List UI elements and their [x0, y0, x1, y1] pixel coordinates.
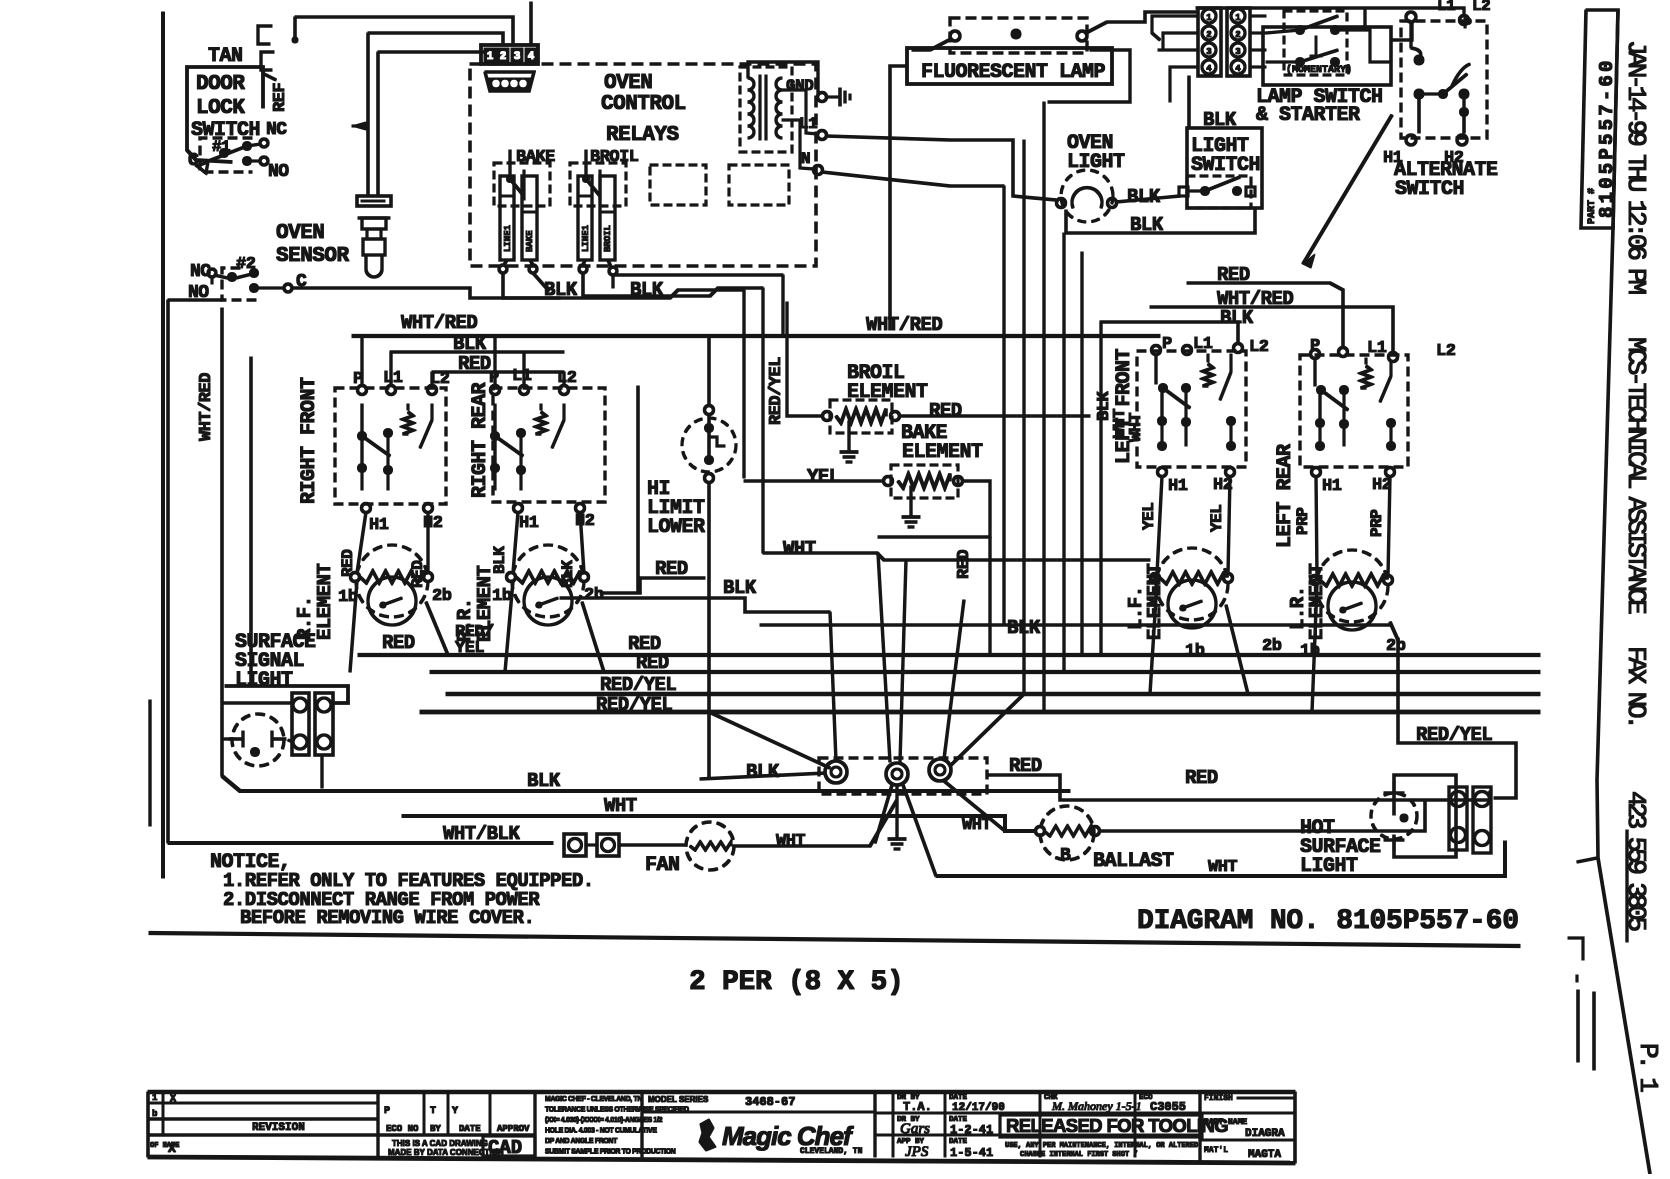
svg-text:H1: H1: [1322, 477, 1342, 496]
wire fan-in 1: [830, 612, 836, 761]
svg-text:JPS: JPS: [905, 1144, 929, 1160]
svg-text:C3055: C3055: [1150, 1100, 1186, 1114]
wire RF L2 up: [431, 372, 433, 386]
svg-text:WHT: WHT: [1208, 858, 1237, 877]
svg-text:CHANGE INTERNAL FIRST SHOT /: CHANGE INTERNAL FIRST SHOT /: [1020, 1151, 1142, 1159]
wire red/yel vertical: [762, 288, 764, 553]
label LIMIT: [647, 497, 705, 520]
svg-text:HOLE DIA. 4.003 - NOT CUMULATI: HOLE DIA. 4.003 - NOT CUMULATIVE: [545, 1128, 657, 1135]
hot surface light lamp: [1371, 782, 1417, 851]
label ELEMENT YEL (LF vertical): [1144, 564, 1166, 640]
hot surface light connector strip 1: [1449, 787, 1467, 850]
wires CN2 to lamp switch: [1250, 16, 1266, 67]
wire vertical V3: [1043, 102, 1045, 712]
LR switch internals: [1315, 358, 1396, 451]
svg-text:4: 4: [528, 51, 535, 63]
svg-text:1b: 1b: [492, 587, 512, 606]
label REF (vertical): [271, 83, 290, 112]
wire LR H1 to element: [1316, 476, 1317, 576]
wire bundle RED 1: [358, 653, 1540, 656]
surface signal terminal strip 1: [292, 693, 309, 755]
label BAKE (element): [901, 422, 948, 445]
label LIGHT (oven): [1067, 151, 1125, 174]
label YEL (LF H1 vertical): [1140, 503, 1158, 530]
label NO: [268, 162, 289, 182]
wire RF L1 up: [390, 352, 392, 386]
light switch outline box: [1187, 128, 1262, 208]
label FLUORESCENT LAMP: [921, 61, 1106, 84]
relay K1 coil left: [500, 176, 514, 260]
svg-text:SWITCH: SWITCH: [1395, 178, 1464, 201]
svg-text:C: C: [188, 151, 199, 171]
svg-text:2b: 2b: [1262, 637, 1282, 656]
fluorescent lamp outline box: [907, 48, 1112, 84]
label L.F. (vertical): [1125, 586, 1147, 630]
label WHT (vertical 2): [1127, 413, 1146, 442]
svg-text:Gars: Gars: [900, 1121, 930, 1137]
label P (LF): [1162, 335, 1172, 354]
fax edge hook: [1577, 858, 1597, 862]
light switch contacts: [1179, 177, 1255, 196]
svg-text:2b: 2b: [584, 586, 604, 605]
label ALTERNATE: [1394, 159, 1498, 182]
svg-text:BAKE: BAKE: [525, 230, 535, 252]
svg-text:12/17/90: 12/17/90: [952, 1102, 1005, 1114]
label LOWER: [647, 516, 705, 539]
label BLK (junction in): [746, 761, 780, 783]
RR element: [507, 545, 589, 625]
wire bake right: [878, 481, 990, 655]
connector J1 pin 2: [497, 48, 509, 63]
wire ballast out: [1100, 800, 1425, 831]
RR switch dashed box: [493, 388, 605, 502]
LR H terminals: [1312, 468, 1395, 477]
wire RF element down: [350, 581, 448, 672]
ground symbol (junction): [888, 827, 906, 849]
label BLK (top right): [1220, 307, 1254, 329]
label RELAYS: [606, 124, 679, 147]
label 2 PER (8 X 5): [689, 967, 904, 998]
wire broil relay pins down: [583, 260, 611, 267]
label NC (switch #2): [190, 262, 211, 282]
fax header FAX NO.: [1621, 646, 1651, 726]
GND terminal: [818, 93, 827, 102]
label LAMP SWITCH: [1256, 86, 1383, 109]
label RED/YEL (bundle 4): [596, 694, 672, 716]
svg-text:RED: RED: [955, 550, 974, 579]
svg-text:LINE1: LINE1: [581, 224, 591, 252]
label BLK (jog): [723, 577, 757, 599]
oven sensor body: [358, 218, 390, 277]
fax header P. 1: [1633, 1043, 1663, 1092]
wire WHT bottom very long: [936, 841, 1505, 876]
label RIGHT REAR (vertical): [469, 382, 492, 498]
bake element dashed box: [891, 465, 958, 498]
svg-text:4: 4: [1235, 64, 1241, 74]
svg-text:2: 2: [1235, 30, 1240, 40]
label 2b (LR): [1386, 637, 1406, 656]
wire fan-out 1: [875, 785, 892, 843]
label L1 (RF): [383, 369, 403, 388]
wire relay output pin4: [613, 275, 783, 335]
wire fan-in 6: [709, 712, 830, 768]
svg-text:DIAGRAM NO. 8105P557-60: DIAGRAM NO. 8105P557-60: [1137, 906, 1519, 937]
relay K3 dashed box (unused): [650, 165, 706, 205]
connector J1 mating half: [485, 72, 534, 91]
N terminal: [814, 166, 823, 175]
wire RR L2 up: [563, 372, 565, 386]
label BLK (lamp feed): [1203, 109, 1237, 131]
wire vertical V4: [1063, 233, 1065, 672]
label H1 (LF): [1168, 477, 1188, 496]
label ELEMENT (bake): [902, 441, 983, 464]
relay K2 contact: [583, 150, 601, 200]
label RED (broil out): [929, 400, 962, 422]
fluorescent lamp levers: [912, 22, 1107, 50]
svg-text:WHT/RED: WHT/RED: [866, 314, 942, 336]
svg-text:LOWER: LOWER: [647, 516, 705, 539]
ground symbol (broil): [840, 421, 858, 462]
RR H terminals: [514, 504, 585, 513]
label WHT (mid): [783, 538, 816, 560]
svg-text:FLUORESCENT LAMP: FLUORESCENT LAMP: [921, 61, 1106, 84]
alt switch legs: [1419, 94, 1464, 133]
left page border line: [162, 12, 165, 878]
svg-text:Y: Y: [452, 1106, 458, 1117]
wire connector pin4 to page top: [530, 2, 533, 46]
wire bundle RED 2: [430, 670, 1540, 673]
svg-text:SUBMIT SAMPLE PRIOR TO PRODUCT: SUBMIT SAMPLE PRIOR TO PRODUCTION: [545, 1149, 676, 1156]
wire fluorescent right to connector: [1107, 12, 1196, 22]
svg-text:1: 1: [1235, 13, 1241, 23]
surface signal light box top: [225, 686, 348, 703]
svg-text:WHT: WHT: [783, 538, 816, 560]
hi limit terminals: [705, 406, 714, 483]
svg-text:RED: RED: [1185, 767, 1218, 789]
wire transformer to L1: [782, 90, 818, 134]
wire fan-in 5: [950, 694, 1024, 766]
fluorescent lamp terminals: [950, 29, 1087, 41]
connector strip CN2: [1227, 8, 1250, 76]
wire CN1 to light switch: [1188, 76, 1191, 128]
relay K1 coil right: [522, 176, 537, 260]
wire fluorescent lower right: [1048, 50, 1130, 102]
label YEL (under RR element): [455, 639, 484, 658]
label BLK (light switch lower): [1130, 214, 1164, 236]
svg-text:LEFT FRONT: LEFT FRONT: [1113, 348, 1136, 464]
label HOT: [1300, 817, 1335, 840]
svg-text:4: 4: [1206, 64, 1212, 74]
svg-text:H1: H1: [369, 516, 389, 535]
label WHT (fan out): [776, 832, 805, 851]
label WHT (bottom right): [1208, 858, 1237, 877]
wire left vertical A: [167, 300, 170, 843]
ground symbol (oven control): [827, 88, 850, 106]
label PRP (LR H1 vertical): [1294, 508, 1312, 535]
svg-text:2 PER (8 X 5): 2 PER (8 X 5): [689, 967, 904, 998]
wire relay outputs run A: [503, 273, 744, 298]
oven light dashed circle: [1061, 170, 1113, 222]
wire to strip1 top: [222, 702, 292, 704]
wire door lock to top run: [294, 17, 297, 38]
wire plug to strip1: [288, 740, 293, 742]
label RED (bundle 1): [628, 633, 661, 655]
oven control dashed box: [470, 64, 816, 266]
svg-text:DATE: DATE: [949, 1094, 968, 1102]
svg-text:ELEMENT: ELEMENT: [314, 564, 336, 640]
wire fan-in 3: [900, 560, 906, 762]
label 2b (LF): [1262, 637, 1282, 656]
wire transformer to N: [782, 120, 814, 169]
wire LR element down: [1312, 584, 1317, 712]
svg-text:1-5-41: 1-5-41: [950, 1146, 993, 1160]
svg-text:(MOMENTARY): (MOMENTARY): [1286, 64, 1352, 76]
wire light switch loop: [1066, 208, 1255, 233]
lamp switch contacts upper: [1266, 16, 1340, 35]
connector strip CN1: [1198, 8, 1221, 76]
svg-text:RIGHT FRONT: RIGHT FRONT: [298, 377, 321, 504]
svg-text:WHT/RED: WHT/RED: [197, 373, 216, 441]
wire bundle BLK: [760, 624, 1390, 627]
label 8105P557-60 (rotated): [1596, 57, 1618, 218]
label 2b (RR): [584, 586, 604, 605]
connector J1 pin 4: [525, 48, 537, 63]
fax header 423 559 3805: [1621, 791, 1651, 930]
switch #2 contacts: [208, 269, 292, 293]
wire bake left (YEL): [744, 480, 883, 482]
svg-text:PRP: PRP: [1294, 508, 1312, 535]
wire RR H2 to element: [580, 512, 584, 573]
wire fan-out 3: [944, 781, 1005, 831]
label 1b (LF): [1185, 642, 1205, 661]
svg-text:BROIL: BROIL: [590, 148, 639, 167]
relay K1 contact: [507, 150, 525, 200]
svg-text:DIAGRA: DIAGRA: [1245, 1128, 1285, 1140]
svg-text:DP AND ANGLE FRONT: DP AND ANGLE FRONT: [545, 1138, 618, 1145]
svg-text:APPROV: APPROV: [497, 1124, 530, 1134]
label DIAGRAM NO. 8105P557-60: [1137, 906, 1519, 937]
label BLK (bundle right): [1007, 617, 1041, 639]
svg-text:SENSOR: SENSOR: [276, 245, 350, 268]
wire RF H2 to element: [427, 512, 429, 573]
label LOCK: [196, 97, 245, 120]
label BROIL (element): [847, 362, 905, 385]
label LIGHT (hot light): [1300, 855, 1358, 878]
svg-text:LINE1: LINE1: [503, 224, 513, 252]
label GND: [786, 77, 813, 95]
svg-text:2: 2: [1206, 30, 1211, 40]
label L2 (LF): [1249, 338, 1269, 357]
surface signal light plug: [229, 714, 286, 766]
label #1: [212, 138, 230, 156]
wire BLK upper: [390, 351, 564, 354]
svg-text:DATE: DATE: [949, 1138, 968, 1146]
svg-text:H2: H2: [423, 514, 443, 533]
wire buttons to fan: [586, 844, 687, 846]
svg-text:2: 2: [500, 51, 507, 63]
label CONTROL: [601, 93, 686, 116]
svg-text:H1: H1: [1168, 477, 1188, 496]
RR switch internals: [491, 404, 565, 490]
arrow from alternate switch: [1303, 115, 1392, 268]
svg-text:FAX NO.: FAX NO.: [1621, 646, 1651, 726]
label BROIL: [590, 148, 639, 167]
svg-text:MCS-TECHNICAL ASSISTANCE: MCS-TECHNICAL ASSISTANCE: [1621, 337, 1651, 614]
label SWITCH: [191, 119, 260, 142]
wire fan-out 2: [903, 785, 936, 876]
junction block dashed box: [819, 758, 987, 794]
svg-text:1: 1: [152, 1093, 158, 1103]
svg-text:P: P: [384, 1106, 390, 1117]
LF switch terminals: [1152, 344, 1243, 355]
label BLK (relay out 1): [544, 279, 578, 301]
light switch contact dashed box: [1187, 176, 1251, 208]
connector J1 shell: [481, 45, 538, 64]
door lock switch box: [187, 67, 263, 162]
label WHT/RED (top right): [1217, 288, 1293, 310]
label PART # (rotated): [1587, 188, 1598, 224]
alt switch pole 1: [1411, 22, 1424, 65]
label HI: [647, 478, 670, 501]
label #2: [236, 255, 256, 274]
svg-text:BLK: BLK: [1203, 109, 1237, 131]
wire vertical V6: [1100, 322, 1102, 655]
wire relay output pin2: [533, 273, 549, 291]
label H1 (RF): [369, 516, 389, 535]
svg-text:L2: L2: [1249, 338, 1269, 357]
label LEFT REAR (vertical): [1274, 444, 1297, 548]
svg-text:CONTROL: CONTROL: [601, 93, 686, 116]
wire BLK feed: [1100, 322, 1238, 344]
fax header JAN-14-99 THU 12:06 PM: [1621, 40, 1651, 293]
arrow marker on sensor lead: [352, 122, 368, 130]
svg-text:DOOR: DOOR: [196, 73, 245, 96]
wire fan-in 2: [878, 553, 890, 762]
label RIGHT FRONT (vertical): [298, 377, 321, 504]
wire RF H1 to element: [357, 512, 366, 573]
connector J1 pin 1: [484, 48, 496, 63]
label NO (switch #2): [188, 283, 209, 303]
label P (RF): [353, 370, 363, 389]
label H1 (LR): [1322, 477, 1342, 496]
svg-text:& STARTER: & STARTER: [1256, 104, 1360, 127]
hot surface light connector strip 2: [1473, 787, 1491, 853]
label RED (node out): [1009, 755, 1042, 777]
wires CN1 left pigtails: [1152, 16, 1198, 102]
svg-text:ELEMENT: ELEMENT: [902, 441, 983, 464]
svg-text:P. 1: P. 1: [1633, 1043, 1663, 1092]
wire switch #2 to relays: [292, 288, 560, 298]
label NC: [266, 120, 287, 140]
svg-text:WHT: WHT: [776, 832, 805, 851]
wire WHT/BLK run: [168, 842, 553, 845]
label RED (vertical, bake out): [955, 550, 974, 579]
svg-text:YEL: YEL: [807, 466, 840, 488]
RF switch dashed box: [335, 388, 446, 504]
svg-text:JAN-14-99 THU 12:06 PM: JAN-14-99 THU 12:06 PM: [1621, 40, 1651, 293]
relay output pins: [499, 265, 617, 275]
RF switch terminals: [358, 386, 437, 395]
wire N feed: [822, 172, 1004, 186]
label YEL (bake in): [807, 466, 840, 488]
label R.R. (vertical): [454, 598, 476, 642]
label C: [188, 151, 199, 171]
svg-text:1: 1: [487, 51, 494, 63]
svg-text:3: 3: [1235, 47, 1240, 57]
lamp switch contacts lower: [1266, 36, 1340, 67]
svg-text:DATE: DATE: [459, 1124, 481, 1134]
svg-text:REF: REF: [271, 83, 290, 112]
svg-text:NC: NC: [266, 120, 287, 140]
relay K4 dashed box (unused): [729, 165, 789, 205]
svg-text:WHT: WHT: [962, 816, 991, 835]
label 1b (RF): [338, 588, 358, 607]
label NOTICE,: [210, 851, 291, 874]
wire RED feed LF: [1187, 283, 1343, 348]
wire RED jog: [600, 578, 705, 593]
wire WHT/RED main run: [352, 334, 1160, 337]
svg-text:THIS IS A CAD DRAWING: THIS IS A CAD DRAWING: [392, 1139, 488, 1148]
label L2 (alt switch): [1472, 0, 1490, 15]
svg-text:BEFORE REMOVING WIRE COVER.: BEFORE REMOVING WIRE COVER.: [240, 907, 534, 929]
label BLK (upper left): [453, 333, 487, 355]
label RED (bottom right): [1185, 767, 1218, 789]
wire BLK jog: [560, 598, 830, 612]
label FAN: [645, 854, 680, 877]
svg-text:H2: H2: [575, 512, 595, 531]
label DOOR: [196, 73, 245, 96]
wire vertical V2: [1023, 140, 1025, 694]
door lock plug hooks: [258, 26, 298, 80]
label N (control): [801, 150, 810, 168]
wire LF H1 to element: [1157, 476, 1162, 574]
label H2 (alt switch): [1444, 149, 1464, 168]
svg-text:X: X: [170, 1094, 176, 1105]
svg-text:TAN: TAN: [208, 45, 243, 68]
svg-text:YEL: YEL: [455, 639, 484, 658]
hi limit contacts: [705, 414, 726, 465]
svg-text:RELEASED FOR TOOLING: RELEASED FOR TOOLING: [1006, 1115, 1228, 1136]
label BALLAST: [1093, 850, 1174, 873]
wire strip2 down: [321, 755, 323, 788]
label WHT (vertical 1): [1111, 409, 1130, 438]
door lock switch contacts: [206, 139, 268, 166]
label P (LR): [1310, 337, 1320, 356]
label SWITCH (light): [1191, 154, 1260, 177]
wire L1 to oven light: [826, 136, 1056, 200]
relay K2 coil left: [578, 176, 592, 260]
svg-text:3468-67: 3468-67: [745, 1095, 795, 1109]
wire broil feed vertical: [743, 290, 745, 478]
bake element resistor: [884, 474, 963, 488]
wire fluorescent left down: [890, 66, 907, 330]
svg-text:1b: 1b: [1185, 642, 1205, 661]
alternate switch dashed box: [1401, 21, 1487, 138]
label BLK (RR H2 vertical): [559, 560, 577, 588]
wire RR element down: [505, 581, 604, 672]
wire fan-in 4: [944, 600, 964, 759]
svg-text:WHT: WHT: [604, 795, 637, 817]
svg-text:PART NAME: PART NAME: [1204, 1118, 1247, 1127]
RR switch terminals: [491, 386, 569, 395]
alt switch terminal top left: [1406, 12, 1416, 22]
LR switch dashed box: [1300, 355, 1408, 467]
label SURFACE (hot light): [1300, 836, 1381, 859]
label L1 (LR): [1367, 339, 1387, 358]
label L2 (LR): [1436, 342, 1456, 361]
wire oven light to light switch: [1116, 196, 1180, 202]
label H2 (LF): [1213, 476, 1233, 495]
